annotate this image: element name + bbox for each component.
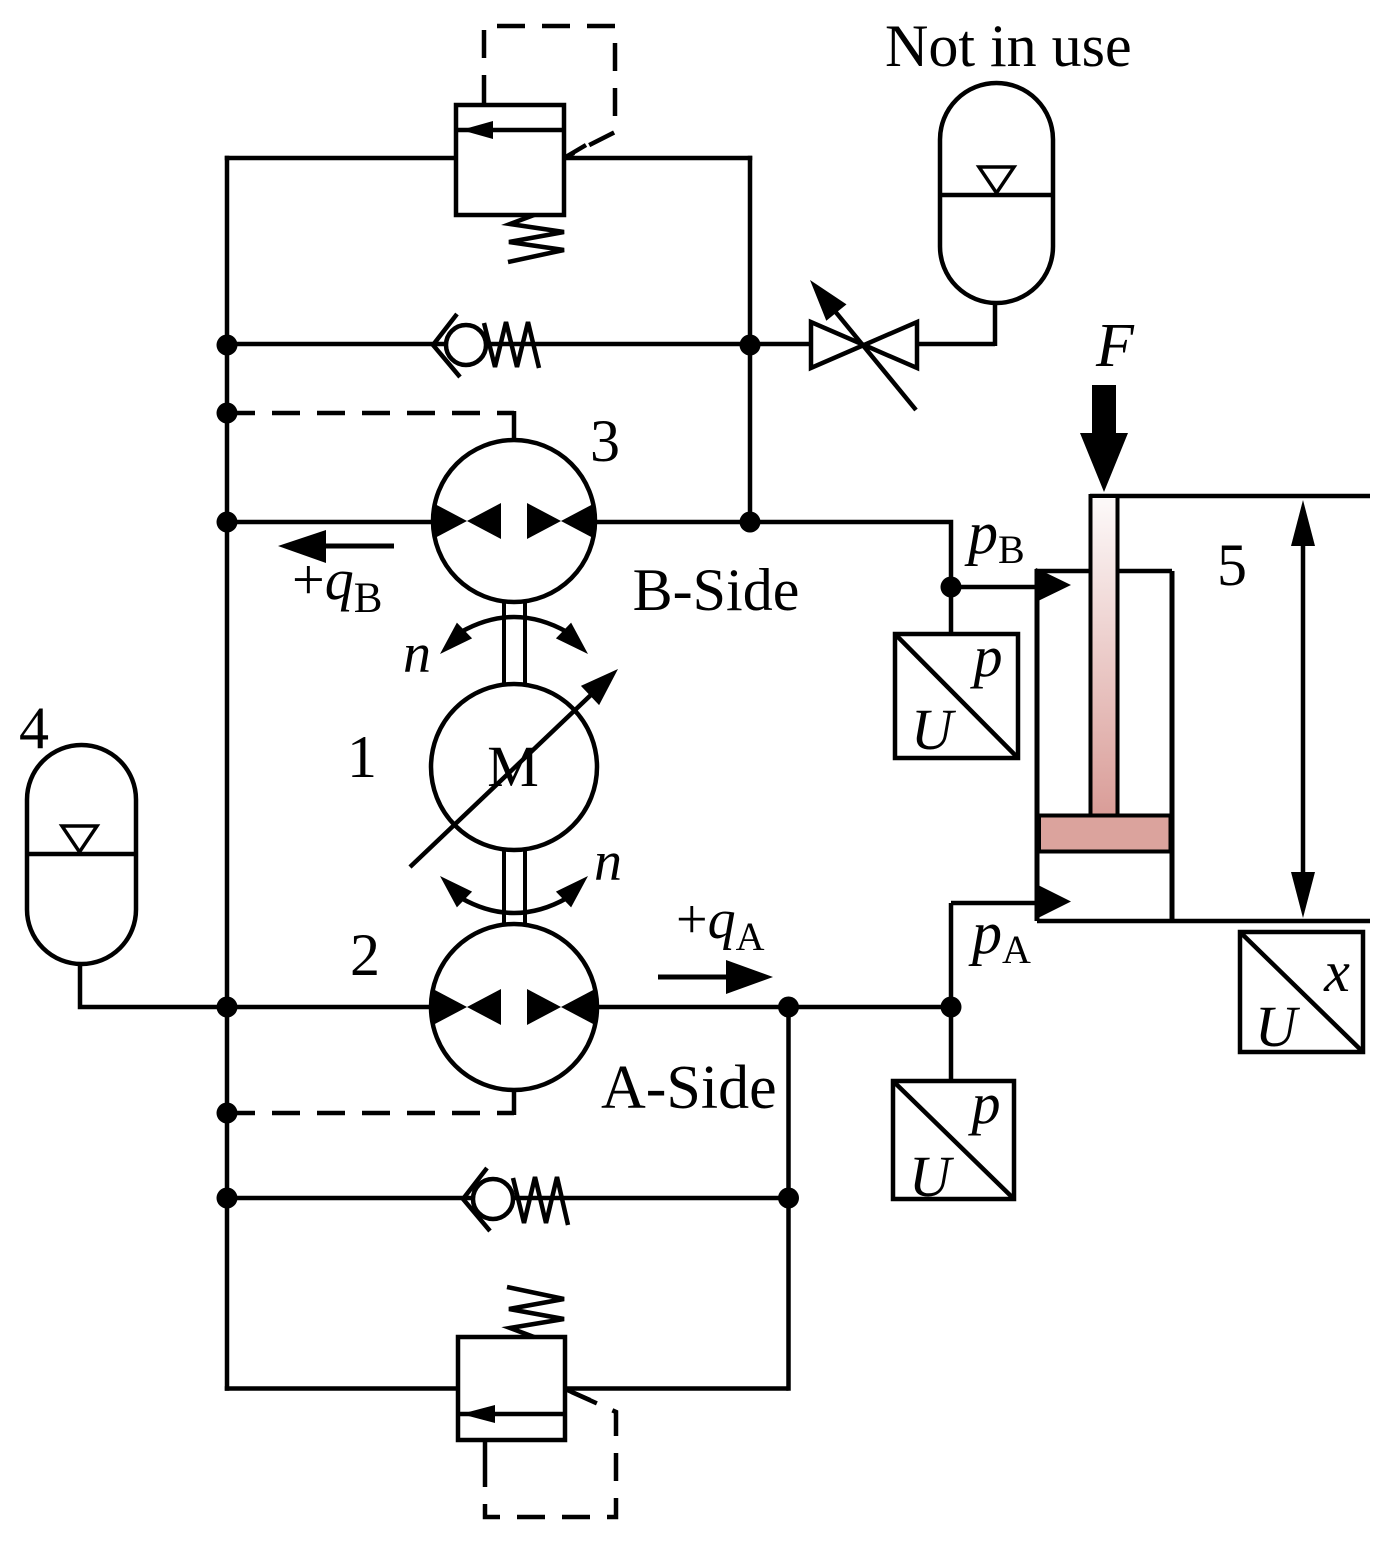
svg-text:p: p [968, 1071, 1001, 1136]
svg-text:U: U [1255, 994, 1301, 1059]
svg-text:1: 1 [347, 724, 377, 790]
svg-text:Not in use: Not in use [885, 13, 1132, 79]
svg-text:p: p [970, 624, 1003, 689]
svg-text:U: U [909, 1144, 955, 1209]
svg-text:2: 2 [350, 922, 380, 988]
svg-text:U: U [911, 697, 957, 762]
svg-text:3: 3 [590, 408, 620, 474]
svg-text:A-Side: A-Side [601, 1054, 777, 1122]
svg-text:n: n [594, 831, 622, 893]
svg-text:F: F [1095, 312, 1135, 380]
svg-text:x: x [1323, 939, 1350, 1004]
svg-text:M: M [487, 734, 539, 799]
svg-text:5: 5 [1217, 532, 1247, 598]
svg-text:n: n [403, 623, 431, 685]
svg-text:4: 4 [19, 695, 49, 761]
svg-text:B-Side: B-Side [633, 557, 800, 623]
